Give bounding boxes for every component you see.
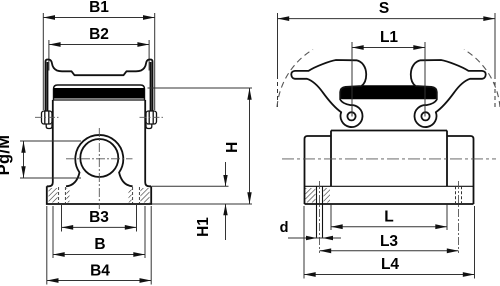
dimension L1: [352, 42, 425, 117]
right screw lug: [146, 111, 157, 129]
left lug centerline: [35, 116, 59, 118]
svg-text:L: L: [384, 209, 393, 226]
dimension L: [331, 205, 447, 231]
dimension S: [278, 13, 496, 107]
dimension H1: [152, 162, 229, 240]
dimension B4: [47, 206, 151, 285]
left pivot hole: [347, 112, 355, 120]
dimension B: [53, 206, 145, 258]
base plate (left view): [47, 186, 151, 204]
vertical centerline of circle: [98, 128, 100, 209]
hood top profile: [46, 60, 153, 112]
svg-text:H1: H1: [195, 217, 212, 237]
housing body (left view): [47, 100, 151, 186]
right pivot hole: [421, 112, 429, 120]
gasket bar (left view): [54, 85, 145, 100]
svg-text:L1: L1: [380, 29, 398, 46]
right hole centerline: [458, 181, 460, 253]
left locking lever: [291, 60, 366, 127]
dimension H: [148, 88, 253, 204]
left flange (right view): [305, 136, 332, 204]
left locking lever swing arc (dashed): [277, 50, 313, 108]
right locking lever: [411, 60, 486, 127]
right flange hole (hidden): [456, 186, 462, 204]
svg-text:L4: L4: [381, 256, 399, 273]
right flange (right view): [447, 136, 474, 204]
dimension L4: [304, 206, 475, 279]
svg-text:B3: B3: [89, 209, 109, 226]
gasket bar (right view): [340, 85, 438, 99]
dimension B1: [43, 13, 154, 110]
dimension d: [288, 236, 341, 240]
cable entry dome: [66, 135, 133, 186]
left screw lug: [42, 111, 53, 129]
left hole centerline: [319, 181, 321, 253]
svg-text:d: d: [280, 220, 289, 236]
dimension L3: [320, 248, 459, 253]
right locking lever swing arc (dashed): [464, 50, 500, 108]
base plate (right view): [305, 186, 474, 204]
base hole right (hatched section): [129, 187, 150, 203]
right lug centerline: [140, 116, 164, 118]
svg-text:L3: L3: [380, 233, 398, 250]
svg-text:B4: B4: [90, 263, 110, 280]
svg-text:B1: B1: [89, 0, 109, 16]
svg-text:B2: B2: [89, 26, 109, 43]
svg-text:B: B: [94, 236, 105, 253]
horizontal centerline (right view): [282, 158, 496, 160]
svg-text:S: S: [379, 0, 389, 17]
housing body (right view): [331, 131, 447, 187]
svg-text:H: H: [224, 142, 241, 153]
left flange hole (sectioned): [306, 186, 331, 238]
dimension B2: [49, 40, 149, 71]
cable entry circle: [80, 139, 118, 177]
dimension B3: [62, 204, 137, 232]
horizontal centerline of circle: [66, 158, 133, 160]
dimension Pg/M: [20, 141, 81, 178]
svg-text:Pg/M: Pg/M: [0, 135, 13, 176]
base hole left (hatched section): [49, 187, 70, 203]
